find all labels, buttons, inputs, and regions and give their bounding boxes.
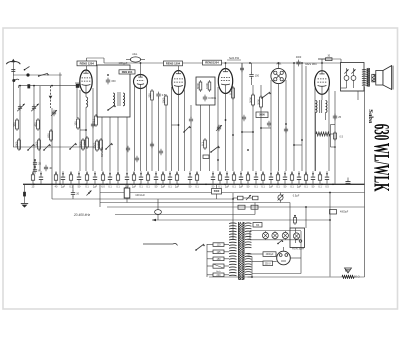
label box RENS 1204 first xyxy=(77,61,97,66)
coil L2 in box xyxy=(113,92,125,106)
antenna xyxy=(6,59,20,75)
svg-text:RES 964: RES 964 xyxy=(305,62,317,66)
switch below V4 xyxy=(261,92,270,99)
bus y214.5 xyxy=(115,214,255,216)
small box a y198 xyxy=(233,196,247,200)
wire connector top xyxy=(278,62,280,68)
speaker horn xyxy=(383,66,393,90)
trimmer capacitor xyxy=(51,110,57,117)
electrolytic cap below bus xyxy=(124,184,130,202)
svg-text:125: 125 xyxy=(217,251,222,254)
wire vertical x52 xyxy=(49,86,53,184)
ground main xyxy=(21,184,28,207)
wire vertical x100 xyxy=(99,184,101,207)
wire top rail stub RES xyxy=(318,59,341,63)
node input junctions xyxy=(12,79,53,87)
switch contact d xyxy=(105,143,113,150)
wire y91 bottom of box xyxy=(341,90,365,92)
wire rect leads xyxy=(252,241,301,274)
wire horizontal y147 xyxy=(13,146,96,148)
capacitor 100 stub xyxy=(240,63,244,72)
label box RENS 1204 third xyxy=(203,60,222,65)
switch contact b xyxy=(43,144,51,151)
regulator box xyxy=(290,228,305,248)
variable capacitor tuning C1 xyxy=(17,104,25,112)
lamp 3 xyxy=(282,231,288,240)
band filter box xyxy=(196,77,215,105)
svg-text:600: 600 xyxy=(46,133,50,138)
switch in box xyxy=(107,105,116,111)
speaker driver xyxy=(376,71,383,86)
small box mid xyxy=(203,155,209,158)
svg-text:400: 400 xyxy=(33,122,37,127)
wire x358 speaker down xyxy=(357,91,359,100)
svg-text:5000: 5000 xyxy=(214,190,220,193)
capacitor mid x152 xyxy=(150,142,154,149)
output transformer core xyxy=(367,68,369,87)
svg-text:100 kHz: 100 kHz xyxy=(135,193,145,197)
resistor zigzag 50ohm xyxy=(342,269,360,279)
wire x330 down xyxy=(329,192,331,277)
svg-text:150: 150 xyxy=(217,258,222,261)
wire connector legs xyxy=(271,80,286,171)
svg-text:0.5: 0.5 xyxy=(340,136,344,139)
resistor 300 xyxy=(12,118,18,131)
vertical label coil xyxy=(101,146,104,157)
box NS xyxy=(253,223,262,228)
output transformer mid xyxy=(316,100,328,171)
svg-text:1000: 1000 xyxy=(161,97,165,103)
svg-text:RGN 1064: RGN 1064 xyxy=(292,248,304,251)
varcap below bus xyxy=(86,190,91,195)
wire x255 down xyxy=(254,203,256,215)
svg-text:RENS 1204: RENS 1204 xyxy=(80,61,95,65)
svg-text:20-400 kHz: 20-400 kHz xyxy=(73,213,91,217)
wire link b xyxy=(260,127,271,129)
resistor 600 xyxy=(46,129,52,142)
svg-text:2000: 2000 xyxy=(78,141,82,147)
title 630 WL/WLK xyxy=(370,124,395,192)
box 4000uF mid xyxy=(330,210,349,215)
dial indicator line xyxy=(143,244,178,246)
wire secondary taps xyxy=(248,231,253,277)
capacitor 40 small xyxy=(44,165,53,172)
wire vertical x29 xyxy=(18,86,20,88)
svg-text:RENS1204: RENS1204 xyxy=(205,61,219,65)
output transformer winding xyxy=(362,69,367,85)
shield box coil L1 xyxy=(97,65,130,117)
wire link a xyxy=(241,131,254,133)
small box b y198 xyxy=(247,196,258,200)
svg-text:150: 150 xyxy=(255,74,260,78)
svg-text:2µF: 2µF xyxy=(161,185,166,188)
switch contact c xyxy=(69,143,77,150)
svg-text:1000: 1000 xyxy=(34,141,38,147)
resistor below V2 right xyxy=(161,94,167,171)
resistor 0.5 right xyxy=(334,131,344,141)
wire lamp rail bottom xyxy=(250,239,301,241)
svg-text:2µF: 2µF xyxy=(132,185,137,188)
ground at 50ohm xyxy=(345,268,352,273)
voltage tap 150 xyxy=(207,257,229,261)
bus dots xyxy=(33,184,334,186)
label box RENS 1204 second xyxy=(164,61,183,66)
title Saba xyxy=(367,109,374,124)
wire y88 stub xyxy=(341,87,347,89)
wire vertical x52 low xyxy=(51,184,53,199)
svg-text:250 V: 250 V xyxy=(265,263,271,265)
potentiometer mid xyxy=(216,125,222,132)
wire link e xyxy=(80,129,87,131)
resistor 250 below V2 xyxy=(147,89,153,171)
wire x127 vertical xyxy=(126,117,128,171)
svg-text:Saba: Saba xyxy=(367,109,374,124)
bus y207 xyxy=(107,206,365,208)
svg-text:300: 300 xyxy=(12,122,16,127)
wire x294 vertical xyxy=(293,62,295,171)
svg-text:5000: 5000 xyxy=(14,141,18,147)
resistor 10000 row2 xyxy=(96,138,102,151)
wire right rail x364.5 xyxy=(364,87,366,278)
label RGN1064 xyxy=(292,248,304,251)
transformer secondary heater xyxy=(245,223,252,248)
capacitor mid x244 xyxy=(242,115,246,122)
svg-text:2µF: 2µF xyxy=(297,185,302,188)
grid box xyxy=(256,112,268,118)
wire x290 down xyxy=(289,203,291,229)
bus y199 xyxy=(52,198,233,200)
tube V5 RES964 xyxy=(315,63,330,94)
capacitor 0.5 below V2 xyxy=(156,92,166,171)
resistor 2000 mid xyxy=(256,95,262,109)
node in box xyxy=(107,74,109,76)
svg-text:50 Ω: 50 Ω xyxy=(354,275,360,279)
capacitor mid x269 xyxy=(267,121,271,128)
component row capacitors and resistors above bus xyxy=(31,171,329,188)
wire mid verticals xyxy=(242,63,261,171)
pot circle xyxy=(278,193,284,203)
wire x302 vertical xyxy=(301,63,303,171)
transformer core xyxy=(239,222,245,280)
svg-text:2µF: 2µF xyxy=(269,185,274,188)
node dots mid-left xyxy=(34,159,36,168)
capacitor in filter xyxy=(203,95,217,102)
wire x233 down xyxy=(232,193,234,240)
transformer primary winding xyxy=(229,223,237,276)
tube V4 RENS1204 xyxy=(218,63,232,94)
wire V5 legs xyxy=(315,88,329,171)
resistor 6000 in filter xyxy=(196,80,202,92)
capacitor mid x161 xyxy=(159,149,163,156)
rounded box b y207 xyxy=(251,205,258,209)
svg-text:150: 150 xyxy=(73,121,77,126)
fuse box xyxy=(207,264,229,273)
svg-text:0.5µF: 0.5µF xyxy=(293,195,300,198)
wire V3 legs xyxy=(172,87,185,171)
wire lamp rail top xyxy=(250,230,301,232)
label RES 964 xyxy=(305,62,317,66)
capacitor box electrolytics xyxy=(341,63,365,92)
wire top rail y63 xyxy=(104,62,341,64)
resistor 5000 mid xyxy=(248,93,254,107)
speaker voice coil xyxy=(372,74,375,82)
resistor 20 below V1 xyxy=(91,114,97,127)
svg-text:2000: 2000 xyxy=(256,99,260,105)
wire x118 vertical xyxy=(117,117,119,171)
switch contact a xyxy=(27,144,35,151)
resistor 5000 left xyxy=(92,139,98,152)
wire vertical x41 xyxy=(39,86,41,171)
resistor 1000 left xyxy=(82,136,88,149)
capacitor 4000 on rail xyxy=(296,56,302,66)
svg-text:150: 150 xyxy=(111,79,116,83)
capacitor on bus right xyxy=(346,178,351,185)
node antenna junction xyxy=(24,67,30,77)
lamp 2 xyxy=(272,231,278,240)
capacitor mid x286 xyxy=(284,127,288,134)
svg-text:10000: 10000 xyxy=(96,140,100,148)
capacitor mid x191 xyxy=(189,105,193,171)
svg-text:REN1821: REN1821 xyxy=(101,146,104,157)
svg-text:NS: NS xyxy=(256,224,260,227)
resistor 30 above rail xyxy=(318,55,332,61)
label 0.5uF xyxy=(293,195,300,198)
resistor 1000 in filter xyxy=(205,80,211,92)
svg-text:4000µF: 4000µF xyxy=(266,254,274,256)
wire filter legs xyxy=(201,105,210,171)
capacitor antenna series xyxy=(11,70,15,72)
bus y202.5 xyxy=(100,202,290,204)
wire V4 legs xyxy=(218,87,233,171)
capacitor 150 right of V4 xyxy=(249,63,259,85)
tube V1 RENS1204 xyxy=(75,66,92,93)
svg-text:1000: 1000 xyxy=(205,83,209,89)
svg-text:4000µF: 4000µF xyxy=(340,211,349,214)
label 100uuF xyxy=(119,61,128,65)
wire ps bottom links xyxy=(251,257,253,278)
voltage tap 240 xyxy=(207,273,229,277)
tube V3 RENS1204 xyxy=(172,66,185,95)
svg-text:Selb.KW: Selb.KW xyxy=(229,56,240,60)
resistor mid x205 xyxy=(200,138,206,150)
cap 20 below bus xyxy=(71,184,80,199)
box 250V ps xyxy=(263,261,273,266)
svg-text:0.5: 0.5 xyxy=(162,93,166,97)
wire link c xyxy=(172,124,180,126)
box 5000 below bus xyxy=(212,184,222,199)
svg-text:2µF: 2µF xyxy=(239,185,244,188)
label REN 904 xyxy=(119,70,135,74)
capacitor 25 small xyxy=(33,160,42,167)
tube V2 REN904 xyxy=(134,63,148,89)
resistor 2000 row2 xyxy=(78,138,84,151)
cap mid a xyxy=(126,146,130,153)
resistor small top xyxy=(294,215,297,225)
wire link d xyxy=(293,144,302,146)
resistor 400 xyxy=(33,118,39,131)
wire V2 legs xyxy=(135,85,147,171)
svg-text:250: 250 xyxy=(147,93,151,98)
svg-text:REN 904: REN 904 xyxy=(122,70,133,74)
bus y220 with arrow xyxy=(152,219,330,221)
wire vertical x77 xyxy=(76,84,80,118)
voltage tap 110 xyxy=(207,243,229,247)
svg-text:Abst.: Abst. xyxy=(132,53,138,56)
bus main y184.3 xyxy=(23,183,365,185)
svg-text:4000: 4000 xyxy=(296,56,302,59)
resistor 0.1 below V4 xyxy=(228,86,234,100)
wire vertical x60 xyxy=(59,73,61,185)
oscillator trimmer oval xyxy=(126,53,145,62)
svg-text:240: 240 xyxy=(217,274,222,277)
label 100kHz xyxy=(135,193,145,197)
node top rail dots xyxy=(140,62,323,64)
svg-text:0.1: 0.1 xyxy=(228,91,232,95)
wire x306 down xyxy=(305,206,307,228)
wire x307 down xyxy=(300,231,302,241)
wire label to rail xyxy=(87,58,105,63)
wire vertical x34 xyxy=(33,86,35,171)
electrolytic cap a xyxy=(344,68,349,88)
wire x333 vertical xyxy=(331,91,336,184)
transformer secondary HT xyxy=(245,253,252,274)
wire mains vertical x207 xyxy=(206,244,208,277)
switch mid x186 xyxy=(183,126,191,133)
bus bottom y277 xyxy=(209,276,365,278)
svg-text:2µF: 2µF xyxy=(175,185,180,188)
switch mid x213 xyxy=(210,146,220,153)
connector pickup circle xyxy=(271,68,286,83)
svg-text:110: 110 xyxy=(217,244,221,247)
oval C below xyxy=(155,199,162,220)
pot arrow y197 xyxy=(246,195,251,200)
voltage tap 125 xyxy=(207,250,229,254)
svg-text:2µF: 2µF xyxy=(93,185,98,188)
label 20-400kHz xyxy=(73,213,91,217)
svg-text:0.1: 0.1 xyxy=(200,142,204,146)
wire x306 vertical xyxy=(305,66,307,184)
svg-text:RENS 1204: RENS 1204 xyxy=(166,61,181,65)
wire vertical x21 xyxy=(19,86,21,150)
rounded box a y207 xyxy=(238,205,245,209)
wire speaker top xyxy=(322,59,365,63)
electrolytic cap b xyxy=(351,68,356,88)
capacitor 6 small xyxy=(33,167,40,174)
capacitor 25 right xyxy=(333,114,342,121)
label Selb.KW xyxy=(227,56,241,60)
svg-text:630 WL/WLK: 630 WL/WLK xyxy=(370,124,395,192)
node dots mid xyxy=(217,119,303,161)
resistor 5000 row2 xyxy=(14,138,20,151)
box 4000uF ps xyxy=(263,252,276,257)
svg-text:0.1: 0.1 xyxy=(91,118,95,122)
mains switch xyxy=(195,244,205,251)
switch S1 wave band xyxy=(38,73,49,77)
resistor 1000 row2 xyxy=(34,138,40,151)
wire V1 legs xyxy=(80,88,93,171)
capacitor mid x93 xyxy=(91,122,95,129)
capacitor 150 in box xyxy=(106,78,116,85)
cap mid b xyxy=(135,156,139,163)
svg-text:5000: 5000 xyxy=(248,97,252,103)
wire vertical x13 xyxy=(12,75,14,147)
wire input bus y85 xyxy=(15,79,78,88)
svg-text:5000: 5000 xyxy=(259,114,265,117)
bus y192.5 xyxy=(100,192,365,194)
svg-text:0.0001: 0.0001 xyxy=(208,96,216,100)
svg-text:2µF: 2µF xyxy=(225,185,230,188)
lamp 1 xyxy=(262,231,268,240)
label A.B. xyxy=(276,62,282,66)
resistor zigzag output xyxy=(316,132,333,136)
rectifier tube RGN1064 xyxy=(277,247,291,265)
coil below V1 xyxy=(86,97,88,107)
resistor 150 xyxy=(73,117,79,130)
svg-text:6000: 6000 xyxy=(196,83,200,89)
wire x110 vertical xyxy=(102,117,110,171)
svg-text:2µF: 2µF xyxy=(61,185,66,188)
switch lamp xyxy=(277,240,283,245)
wire antenna lead horizontal xyxy=(13,74,62,76)
variable capacitor tuning C2 xyxy=(31,104,39,112)
